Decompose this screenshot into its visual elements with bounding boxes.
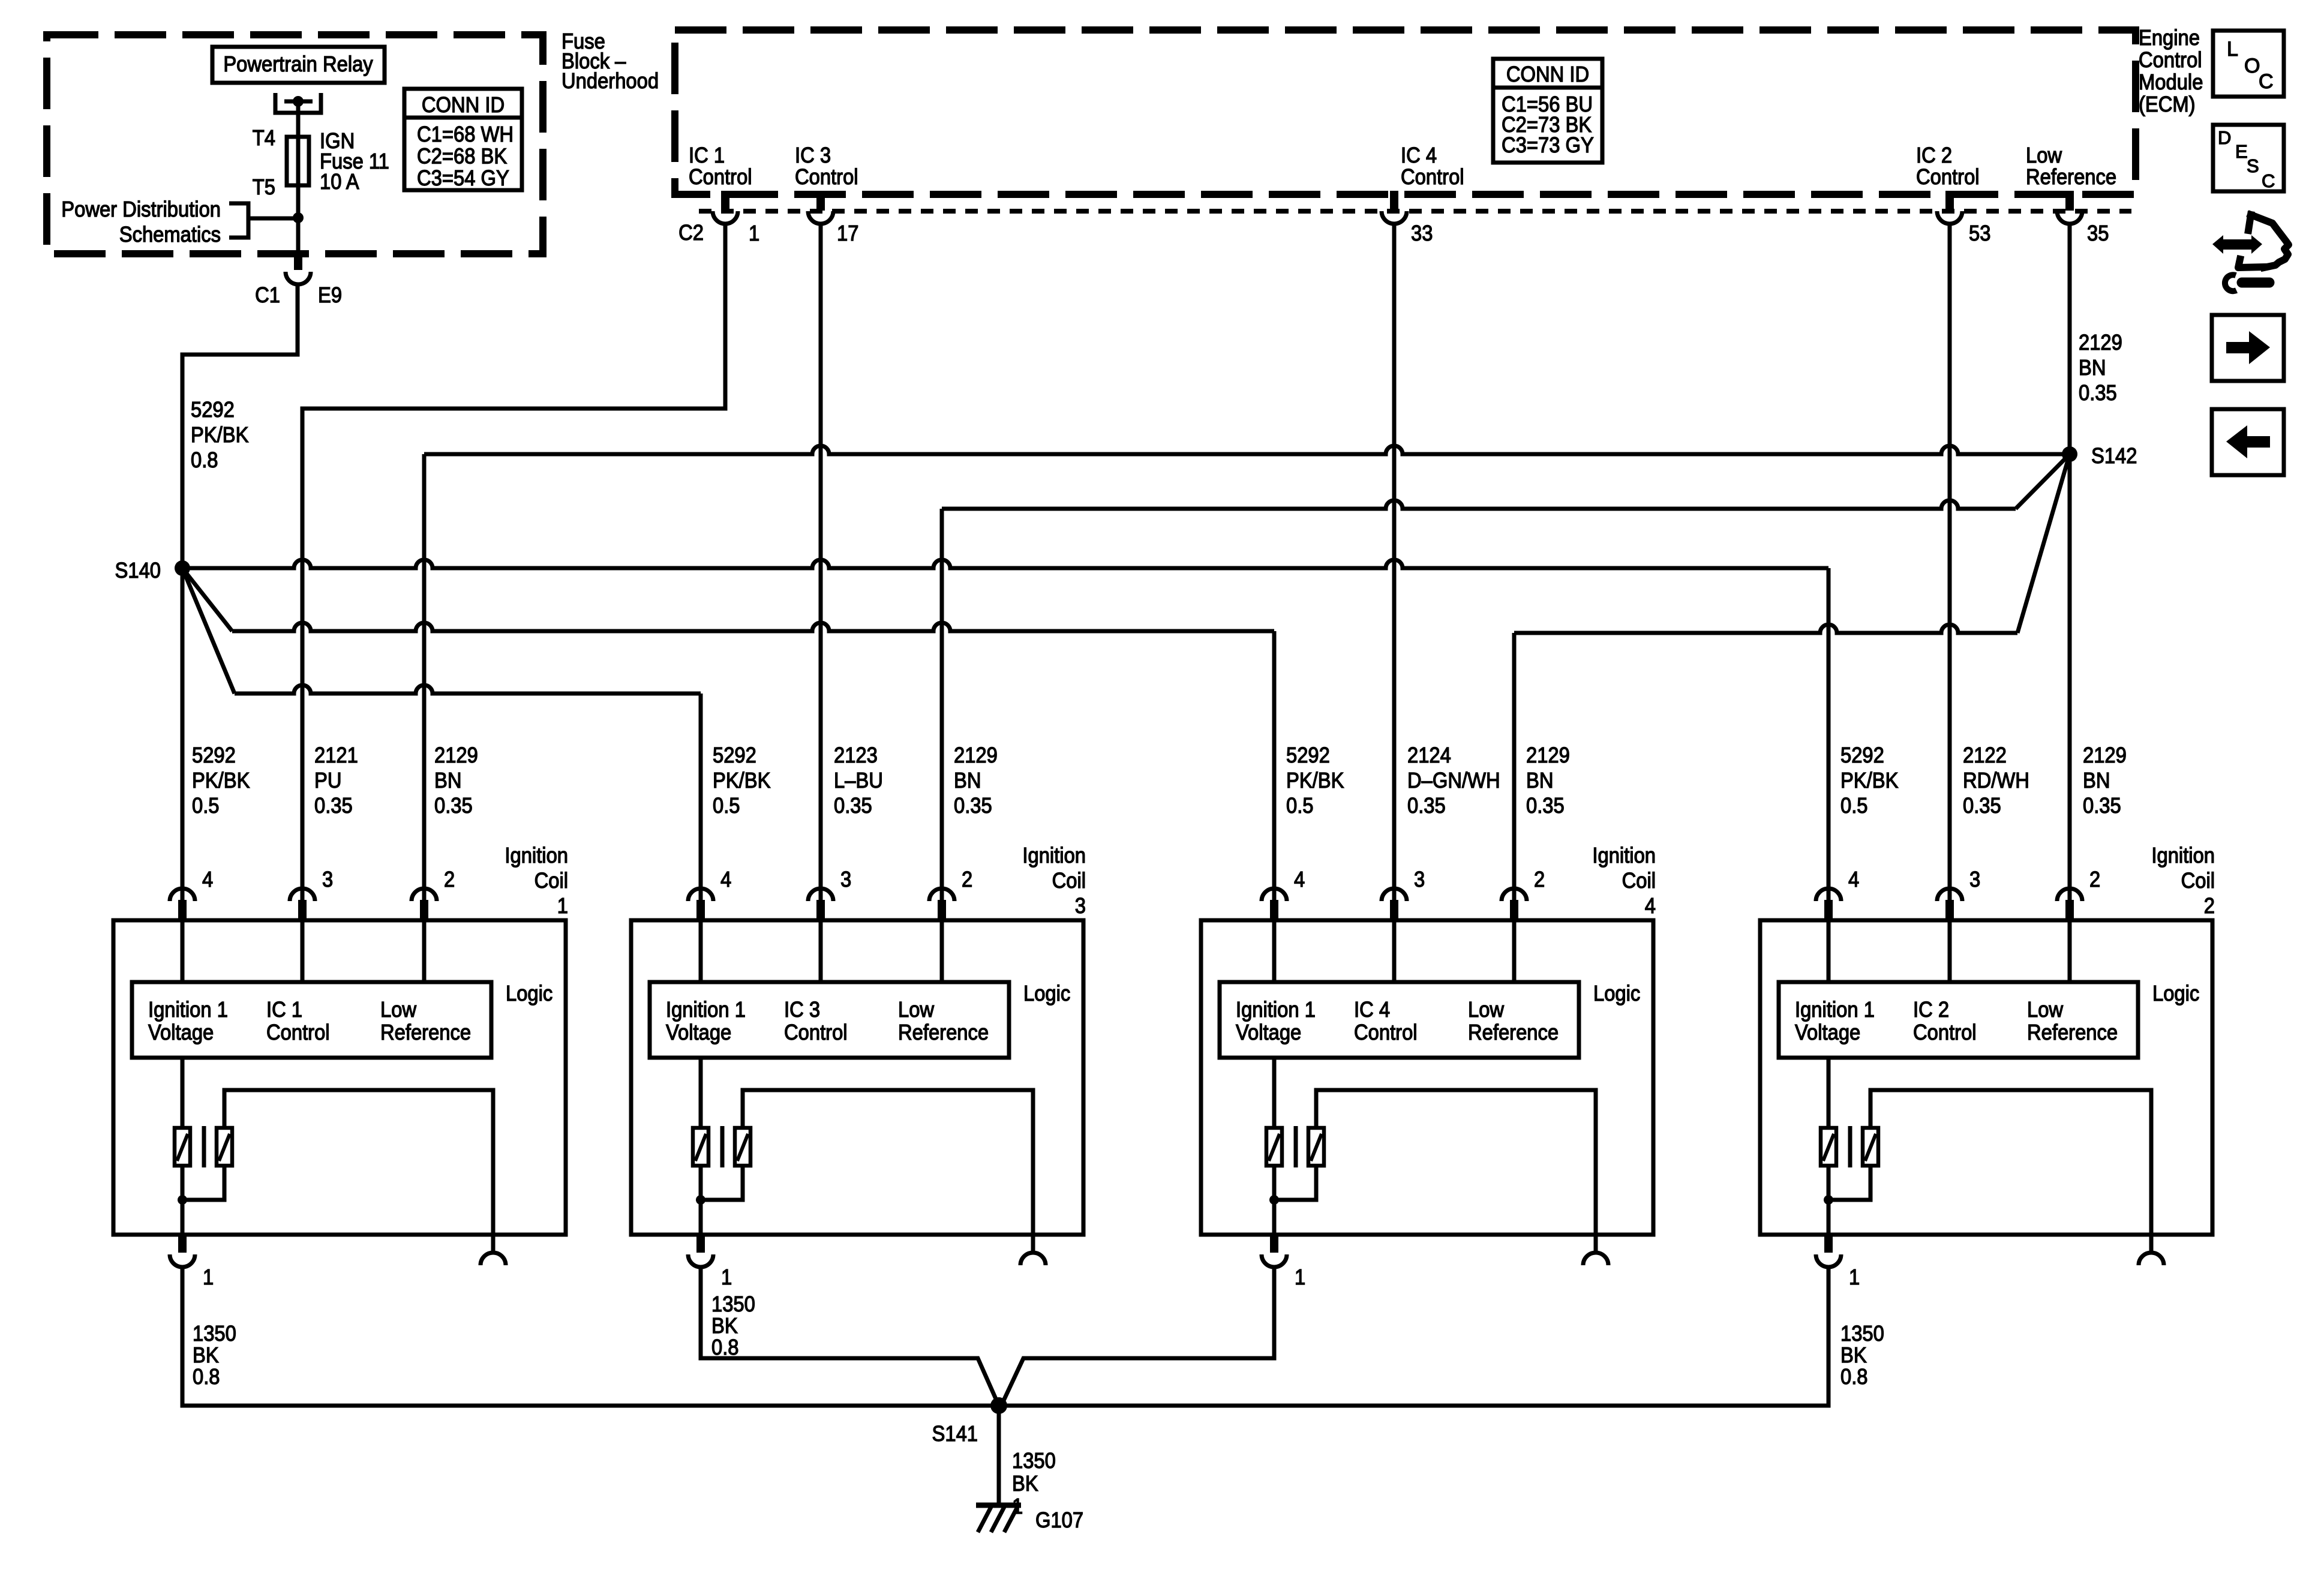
svg-text:CONN ID: CONN ID [1506, 63, 1589, 87]
svg-text:Module: Module [2139, 71, 2203, 95]
svg-text:Powertrain Relay: Powertrain Relay [223, 53, 373, 77]
wire secondary to HV terminal [224, 1090, 493, 1235]
svg-text:3: 3 [1969, 868, 1980, 892]
coil 4 high voltage terminal [1594, 1235, 1598, 1251]
svg-text:4: 4 [720, 868, 731, 892]
svg-text:0.8: 0.8 [1840, 1365, 1868, 1389]
svg-text:C1: C1 [255, 284, 280, 308]
coil 2 terminal function box [1779, 982, 2138, 1058]
svg-text:IC 3: IC 3 [784, 998, 820, 1022]
wire pin 3 into logic block [819, 920, 823, 982]
svg-text:Control: Control [1913, 1021, 1977, 1045]
wire relay contact to fuse [296, 101, 301, 137]
svg-text:Ignition 1: Ignition 1 [666, 998, 746, 1022]
wire pin 4 into logic block [181, 920, 185, 982]
wire 1350 BK coil 1 pin 1 to S141 [182, 1267, 999, 1406]
svg-text:0.8: 0.8 [193, 1365, 220, 1389]
svg-text:PK/BK: PK/BK [1840, 769, 1899, 793]
connector C1 E9 pin stub [294, 252, 302, 270]
coil 2 pin 3 terminal [1937, 888, 1962, 901]
wire S140 to coil 3 pin 4 branch [235, 685, 701, 694]
svg-text:2121: 2121 [314, 744, 358, 768]
svg-text:O: O [2244, 55, 2260, 77]
svg-text:G107: G107 [1035, 1509, 1083, 1533]
svg-text:1: 1 [721, 1266, 732, 1290]
svg-text:IC 4: IC 4 [1354, 998, 1390, 1022]
svg-text:0.5: 0.5 [1840, 794, 1868, 818]
wire S140 to coil 4 pin 4 branch [232, 623, 1274, 631]
svg-text:Voltage: Voltage [148, 1021, 214, 1045]
wire primary to junction [1272, 1166, 1277, 1200]
icon forward arrow box [2212, 315, 2284, 381]
svg-text:BK: BK [1012, 1472, 1038, 1496]
wire 2123 L-BU from ECM pin 17 to coil 3 [819, 224, 823, 920]
svg-text:5292: 5292 [1286, 744, 1330, 768]
svg-text:C1=68 WH: C1=68 WH [417, 123, 514, 147]
wire primary to junction [181, 1166, 185, 1200]
wire pin 2 into logic block [422, 920, 427, 982]
svg-text:Coil: Coil [2181, 869, 2215, 893]
svg-text:Ignition 1: Ignition 1 [1236, 998, 1316, 1022]
svg-text:C: C [2262, 170, 2275, 191]
svg-text:C2: C2 [678, 221, 704, 245]
wire secondary to HV terminal [743, 1090, 1033, 1235]
svg-text:0.35: 0.35 [834, 794, 872, 818]
svg-text:Ignition: Ignition [2151, 844, 2215, 868]
fuse block - underhood dashed box [47, 35, 543, 254]
wire down to coil 3 pin 4 [699, 694, 703, 920]
svg-text:Control: Control [1354, 1021, 1418, 1045]
relay contact symbol [275, 93, 321, 113]
svg-text:2124: 2124 [1407, 744, 1451, 768]
svg-text:1350: 1350 [1840, 1322, 1884, 1346]
svg-text:C: C [2259, 70, 2274, 93]
wire down to coil 4 pin 2 [1512, 633, 1517, 920]
ECM pin 35 stub [2065, 191, 2074, 211]
svg-text:4: 4 [1294, 868, 1305, 892]
svg-text:5292: 5292 [191, 398, 235, 422]
icon DESC box [2213, 125, 2284, 191]
svg-text:Control: Control [784, 1021, 848, 1045]
svg-text:PK/BK: PK/BK [192, 769, 250, 793]
svg-text:E9: E9 [318, 284, 342, 308]
coil 2 primary winding [1821, 1128, 1836, 1166]
svg-text:Voltage: Voltage [1236, 1021, 1301, 1045]
wire 2121 PU from ECM pin 1 to coil 1 IC control [302, 224, 725, 920]
junction primary/secondary common [1269, 1195, 1279, 1205]
svg-text:0.35: 0.35 [1407, 794, 1446, 818]
svg-text:CONN ID: CONN ID [422, 94, 505, 118]
svg-text:L: L [2227, 38, 2238, 61]
wire junction to pin 1 [181, 1200, 185, 1235]
svg-text:Low: Low [2027, 998, 2063, 1022]
wire junction to secondary [182, 1166, 224, 1200]
svg-text:1350: 1350 [711, 1293, 755, 1317]
wire to primary winding [699, 1058, 703, 1128]
wire down to coil 4 pin 4 [1272, 631, 1277, 920]
icon back arrow box [2212, 409, 2284, 475]
wire to primary winding [181, 1058, 185, 1128]
ECM pin 33 terminal [1382, 211, 1407, 224]
coil 4 pin 1 terminal [1270, 1235, 1278, 1253]
svg-text:0.35: 0.35 [2079, 382, 2117, 406]
coil 3 pin 3 terminal [808, 888, 833, 901]
svg-text:IC 2: IC 2 [1913, 998, 1949, 1022]
svg-text:C3=54 GY: C3=54 GY [417, 167, 509, 191]
svg-text:BN: BN [2083, 769, 2110, 793]
ECM pin 35 terminal [2057, 211, 2082, 224]
svg-text:Ignition: Ignition [1592, 844, 1656, 868]
power distribution schematics reference bracket [229, 203, 248, 238]
svg-text:BK: BK [1840, 1344, 1867, 1368]
svg-text:PU: PU [314, 769, 341, 793]
svg-text:3: 3 [1414, 868, 1425, 892]
svg-text:Coil: Coil [535, 869, 568, 893]
svg-text:33: 33 [1411, 222, 1433, 246]
svg-text:4: 4 [1848, 868, 1859, 892]
coil 1 primary winding [175, 1128, 190, 1166]
svg-text:1: 1 [749, 222, 759, 246]
wire 5292 PK/BK 0.8 from E9 to S140 [182, 284, 298, 568]
coil 3 primary winding [693, 1128, 708, 1166]
wire junction to secondary [701, 1166, 743, 1200]
coil 1 secondary winding [217, 1128, 232, 1166]
wire junction to pin 1 [1827, 1200, 1831, 1235]
coil 4 primary winding [1266, 1128, 1282, 1166]
svg-text:Reference: Reference [380, 1021, 471, 1045]
svg-text:2129: 2129 [1526, 744, 1570, 768]
wire S140 to coil 2 pin 4 branch [182, 560, 1828, 568]
svg-text:Reference: Reference [1468, 1021, 1559, 1045]
fuse IGN Fuse 11 10A [287, 137, 309, 185]
ground G107 [976, 1503, 1021, 1508]
coil 3 pin 4 terminal [688, 888, 713, 901]
wire 2124 D-GN/WH from ECM pin 33 to coil 4 [1392, 224, 1397, 920]
svg-text:Engine: Engine [2139, 26, 2200, 50]
wire primary to junction [699, 1166, 703, 1200]
coil 1 pin 3 terminal [290, 888, 315, 901]
coil 2 pin 1 terminal [1824, 1235, 1833, 1253]
svg-text:BN: BN [1526, 769, 1553, 793]
wire 1350 BK from coil 4 pin 1 [1272, 1267, 1277, 1271]
transformer core [720, 1126, 725, 1167]
svg-text:2: 2 [2089, 868, 2100, 892]
svg-text:IC 1: IC 1 [266, 998, 302, 1022]
svg-text:IC 4: IC 4 [1401, 144, 1437, 168]
coil 1 pin 2 terminal [412, 888, 437, 901]
icon LOC box [2213, 31, 2284, 97]
svg-text:Underhood: Underhood [562, 70, 659, 94]
ECM pin 33 stub [1390, 191, 1398, 211]
svg-text:Schematics: Schematics [119, 223, 221, 247]
svg-text:2129: 2129 [2079, 331, 2122, 355]
ECM pin 53 terminal [1937, 211, 1962, 224]
svg-text:2123: 2123 [834, 744, 878, 768]
svg-text:2129: 2129 [954, 744, 998, 768]
powertrain relay box [212, 47, 385, 83]
wire 1350 BK coil 3 pin 1 to S141 [701, 1267, 999, 1406]
wire S142 to coil 4 low reference branch [1514, 625, 2017, 633]
svg-text:T4: T4 [253, 127, 275, 151]
wire 1350 BK from coil 3 pin 1 [699, 1267, 703, 1271]
svg-text:10 A: 10 A [320, 170, 359, 194]
wire pin 4 into logic block [699, 920, 703, 982]
wire 2122 RD/WH from ECM pin 53 to coil 2 [1948, 224, 1952, 920]
svg-text:RD/WH: RD/WH [1963, 769, 2029, 793]
coil 3 secondary winding [735, 1128, 750, 1166]
svg-text:Voltage: Voltage [666, 1021, 731, 1045]
svg-text:2: 2 [2204, 894, 2215, 918]
wire through fuse [296, 137, 301, 218]
ECM pin 17 terminal [808, 211, 833, 224]
ECM pin 1 terminal [713, 211, 738, 224]
ignition coil 2 box [1760, 920, 2212, 1235]
coil 1 high voltage terminal [491, 1235, 496, 1251]
svg-text:Ignition 1: Ignition 1 [148, 998, 228, 1022]
wire pin 2 into logic block [1512, 920, 1517, 982]
wire primary to junction [1827, 1166, 1831, 1200]
svg-text:4: 4 [1645, 894, 1656, 918]
wire S140 angled branch to coil 3 [182, 568, 235, 694]
junction primary/secondary common [1824, 1195, 1833, 1205]
svg-text:0.35: 0.35 [434, 794, 473, 818]
svg-text:2129: 2129 [434, 744, 478, 768]
splice S140 [175, 560, 190, 576]
svg-text:0.35: 0.35 [954, 794, 992, 818]
svg-text:0.5: 0.5 [713, 794, 740, 818]
svg-text:(ECM): (ECM) [2139, 93, 2196, 117]
coil 2 secondary winding [1863, 1128, 1878, 1166]
wire secondary to HV terminal [1316, 1090, 1596, 1235]
svg-text:2: 2 [962, 868, 972, 892]
svg-text:0.35: 0.35 [2083, 794, 2121, 818]
svg-text:PK/BK: PK/BK [191, 424, 249, 448]
wire 2129 BN from ECM pin 35 to S142 [2068, 224, 2072, 454]
ECM CONN ID table [1493, 59, 1602, 163]
junction primary/secondary common [696, 1195, 705, 1205]
svg-text:Control: Control [266, 1021, 330, 1045]
ignition coil 1 box [113, 920, 566, 1235]
svg-text:Reference: Reference [2026, 166, 2116, 190]
svg-text:53: 53 [1969, 222, 1990, 246]
svg-text:Low: Low [2026, 144, 2062, 168]
svg-text:D–GN/WH: D–GN/WH [1407, 769, 1500, 793]
svg-text:5292: 5292 [1840, 744, 1884, 768]
svg-text:3: 3 [322, 868, 333, 892]
transformer core [202, 1126, 206, 1167]
svg-text:Ignition: Ignition [505, 844, 568, 868]
svg-text:IC 1: IC 1 [689, 144, 725, 168]
svg-text:0.8: 0.8 [191, 449, 218, 473]
svg-text:L–BU: L–BU [834, 769, 883, 793]
svg-text:S: S [2247, 155, 2259, 176]
svg-text:S142: S142 [2091, 445, 2137, 469]
svg-text:Logic: Logic [1593, 982, 1640, 1006]
wire secondary to HV terminal [1870, 1090, 2151, 1235]
ECM pin 53 stub [1945, 191, 1954, 211]
coil 2 pin 4 terminal [1816, 888, 1841, 901]
wire down to coil 2 pin 4 [1827, 568, 1831, 920]
svg-text:Ignition: Ignition [1022, 844, 1086, 868]
wire S142 angled branch to coil 3 [2016, 454, 2070, 509]
svg-text:3: 3 [1075, 894, 1086, 918]
svg-text:IC 2: IC 2 [1916, 144, 1952, 168]
wire to primary winding [1272, 1058, 1277, 1128]
svg-text:Control: Control [1401, 166, 1464, 190]
wire S142 to coil 3 low reference branch [942, 500, 2016, 509]
wire to primary winding [1827, 1058, 1831, 1128]
svg-text:0.35: 0.35 [1963, 794, 2001, 818]
svg-text:IC 3: IC 3 [795, 144, 831, 168]
ignition coil 4 box [1201, 920, 1653, 1235]
svg-text:0.8: 0.8 [711, 1336, 739, 1360]
wire pin 3 into logic block [1392, 920, 1397, 982]
svg-text:Control: Control [795, 166, 858, 190]
connector C1 E9 terminal [286, 272, 311, 284]
wire S142 to coil 1 low reference branch [424, 446, 2070, 454]
svg-text:Low: Low [1468, 998, 1504, 1022]
coil 1 pin 4 terminal [170, 888, 195, 901]
svg-text:3: 3 [840, 868, 851, 892]
wire 1350 BK from coil 2 pin 1 [1827, 1267, 1831, 1271]
svg-text:Logic: Logic [1023, 982, 1070, 1006]
wire pin 3 into logic block [301, 920, 305, 982]
fuse block CONN ID table [404, 89, 522, 190]
svg-text:S140: S140 [115, 559, 161, 583]
coil 4 terminal function box [1220, 982, 1579, 1058]
ECM pin 17 stub [816, 191, 825, 211]
svg-text:Low: Low [380, 998, 416, 1022]
wire S140 down to coil 1 pin 4 [181, 568, 185, 920]
wire down to coil 1 pin 2 [422, 454, 427, 920]
svg-text:0.35: 0.35 [314, 794, 353, 818]
coil 4 pin 3 terminal [1382, 888, 1407, 901]
svg-text:BN: BN [954, 769, 981, 793]
ECM connector C2 fine dashed line [699, 209, 2131, 214]
svg-text:C3=73 GY: C3=73 GY [1502, 134, 1594, 158]
svg-text:E: E [2235, 141, 2248, 162]
coil 1 terminal function box [132, 982, 491, 1058]
svg-text:Power Distribution: Power Distribution [61, 198, 221, 222]
coil 2 pin 2 terminal [2057, 888, 2082, 901]
ECM pin 1 stub [721, 191, 729, 211]
coil 4 pin 4 terminal [1262, 888, 1287, 901]
wire pin 2 into logic block [2068, 920, 2072, 982]
wire S142 angled branch to coil 4 [2017, 454, 2070, 633]
svg-text:BK: BK [711, 1314, 738, 1338]
wire junction to secondary [1274, 1166, 1316, 1200]
coil 1 pin 1 terminal [178, 1235, 187, 1253]
coil 4 pin 2 terminal [1502, 888, 1527, 901]
svg-text:5292: 5292 [192, 744, 236, 768]
svg-text:C2=68 BK: C2=68 BK [417, 145, 507, 169]
wire pin 3 into logic block [1948, 920, 1952, 982]
svg-text:5292: 5292 [713, 744, 756, 768]
svg-text:35: 35 [2087, 222, 2109, 246]
svg-text:Reference: Reference [898, 1021, 989, 1045]
coil 3 pin 1 terminal [696, 1235, 705, 1253]
wire 1350 BK coil 2 pin 1 to S141 [999, 1267, 1828, 1406]
coil 3 pin 2 terminal [929, 888, 954, 901]
wire down to coil 3 pin 2 [940, 509, 944, 920]
splice S142 [2062, 446, 2077, 462]
ignition coil 3 box [631, 920, 1083, 1235]
wire fuse junction to connector E9 [296, 218, 301, 254]
wire pin 4 into logic block [1827, 920, 1831, 982]
svg-text:4: 4 [202, 868, 213, 892]
wire junction to secondary [1828, 1166, 1870, 1200]
svg-text:Ignition 1: Ignition 1 [1795, 998, 1875, 1022]
wire junction to pin 1 [1272, 1200, 1277, 1235]
svg-text:2129: 2129 [2083, 744, 2127, 768]
svg-text:T5: T5 [253, 176, 275, 200]
svg-text:Control: Control [1916, 166, 1980, 190]
wire S142 down to coil 2 low reference [2068, 454, 2072, 920]
wire pin 2 into logic block [940, 920, 944, 982]
svg-text:1350: 1350 [193, 1322, 236, 1346]
wire pin 4 into logic block [1272, 920, 1277, 982]
svg-text:Low: Low [898, 998, 934, 1022]
wire junction to pin 1 [699, 1200, 703, 1235]
svg-text:PK/BK: PK/BK [713, 769, 771, 793]
svg-text:2122: 2122 [1963, 744, 2007, 768]
svg-text:BN: BN [434, 769, 461, 793]
wire 1350 BK coil 4 pin 1 to S141 [1001, 1267, 1274, 1406]
svg-text:Coil: Coil [1052, 869, 1086, 893]
svg-text:Logic: Logic [506, 982, 553, 1006]
svg-text:1: 1 [557, 894, 568, 918]
transformer core [1294, 1126, 1298, 1167]
coil 3 terminal function box [650, 982, 1009, 1058]
coil 4 secondary winding [1308, 1128, 1324, 1166]
svg-text:Control: Control [2139, 49, 2202, 73]
svg-text:1: 1 [1295, 1266, 1305, 1290]
svg-text:2: 2 [1534, 868, 1545, 892]
svg-text:Coil: Coil [1622, 869, 1656, 893]
svg-text:D: D [2218, 127, 2231, 148]
junction on fuse output [293, 212, 304, 223]
svg-text:1350: 1350 [1012, 1449, 1056, 1473]
coil 2 high voltage terminal [2149, 1235, 2154, 1251]
svg-text:Reference: Reference [2027, 1021, 2118, 1045]
svg-text:0.5: 0.5 [1286, 794, 1314, 818]
svg-text:S141: S141 [932, 1422, 978, 1446]
svg-text:Logic: Logic [2152, 982, 2199, 1006]
svg-text:BN: BN [2079, 356, 2106, 380]
svg-text:1: 1 [203, 1266, 214, 1290]
engine control module dashed box [675, 30, 2136, 194]
svg-text:Control: Control [689, 166, 752, 190]
junction primary/secondary common [178, 1195, 187, 1205]
svg-text:0.35: 0.35 [1526, 794, 1565, 818]
svg-text:17: 17 [837, 222, 858, 246]
splice S141 [990, 1397, 1007, 1414]
coil 3 high voltage terminal [1031, 1235, 1035, 1251]
wire 1350 BK 1 S141 to ground [997, 1406, 1001, 1505]
icon hand with wrench (service information) [2212, 235, 2262, 254]
transformer core [1848, 1126, 1852, 1167]
svg-text:PK/BK: PK/BK [1286, 769, 1344, 793]
svg-text:0.5: 0.5 [192, 794, 220, 818]
svg-text:1: 1 [1849, 1266, 1860, 1290]
svg-text:Voltage: Voltage [1795, 1021, 1860, 1045]
svg-text:2: 2 [444, 868, 455, 892]
wire 1350 BK from coil 1 pin 1 [181, 1267, 185, 1271]
svg-text:BK: BK [193, 1344, 219, 1368]
wire S140 angled branch to coil 4 [182, 568, 232, 631]
